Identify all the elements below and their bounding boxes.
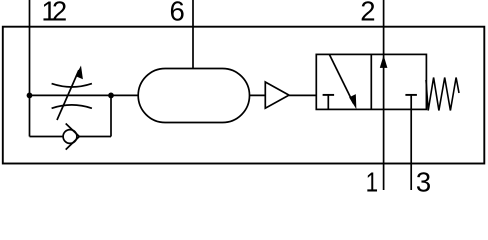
svg-text:1: 1: [366, 167, 379, 192]
svg-text:6: 6: [170, 0, 185, 27]
svg-text:3: 3: [416, 167, 431, 192]
svg-text:12: 12: [41, 0, 65, 27]
svg-text:2: 2: [360, 0, 375, 27]
